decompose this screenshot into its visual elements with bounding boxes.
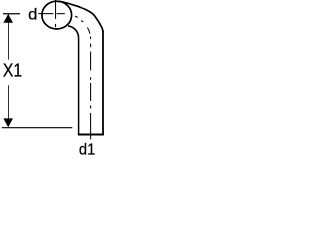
inner bend contour	[68, 26, 79, 38]
X1 dimension line	[8, 15, 10, 127]
left wall	[78, 38, 80, 135]
top dimension arrow	[3, 14, 13, 23]
vertical pipe centerline	[90, 36, 92, 139]
pipe bottom edge	[78, 134, 104, 136]
socket opening ellipse (end view)	[42, 1, 72, 29]
bend centerline dashes	[75, 16, 90, 33]
pipe bend technical drawing 104x160	[0, 0, 104, 160]
svg-text:d1: d1	[79, 142, 96, 159]
horizontal centerline through socket (leader from d)	[38, 13, 65, 15]
bottom extension line	[2, 127, 73, 129]
outer bend contour	[58, 1, 103, 31]
right wall	[102, 31, 104, 135]
bottom dimension arrow	[3, 118, 13, 127]
svg-text:X1: X1	[3, 60, 22, 81]
top extension line	[3, 13, 20, 15]
vertical centerline of socket	[55, 0, 57, 27]
svg-text:d: d	[28, 7, 37, 24]
